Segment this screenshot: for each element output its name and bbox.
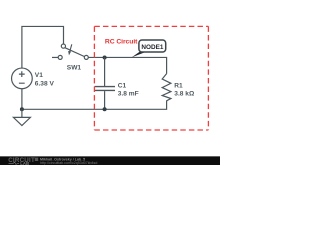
wire top from V1 to SW1 xyxy=(22,26,64,68)
svg-text:3.8 mF: 3.8 mF xyxy=(118,91,139,98)
RC Circuit region box xyxy=(94,26,208,130)
junction C1 bottom xyxy=(103,107,107,111)
svg-text:V1: V1 xyxy=(35,72,43,79)
svg-text:RC Circuit: RC Circuit xyxy=(105,39,138,46)
junction node at C1 top xyxy=(103,55,107,59)
wire bottom from ground tee to R1 xyxy=(22,101,167,110)
svg-text:http://circuitlab.com/c2q53d07: http://circuitlab.com/c2q53d07kb4sd xyxy=(40,161,97,165)
ground xyxy=(13,109,30,125)
svg-text:NODE1: NODE1 xyxy=(141,44,163,51)
switch SW1 xyxy=(58,44,88,59)
svg-text:3.8 kΩ: 3.8 kΩ xyxy=(174,91,195,98)
voltage source V1 xyxy=(12,68,33,89)
junction ground tee xyxy=(20,107,24,111)
svg-text:C1: C1 xyxy=(118,83,127,90)
label R1 3.8 kΩ xyxy=(174,83,195,98)
node NODE1 callout xyxy=(132,40,166,57)
resistor R1 xyxy=(162,74,171,101)
capacitor C1 xyxy=(95,57,116,109)
wire V1 bottom to ground tee xyxy=(21,88,23,109)
watermark footer bar xyxy=(0,156,220,166)
label V1 6.38 V xyxy=(35,72,55,88)
wire SW1 left pin stub xyxy=(52,56,58,58)
label C1 3.8 mF xyxy=(118,83,139,98)
svg-text:SW1: SW1 xyxy=(67,65,82,72)
svg-text:6.38 V: 6.38 V xyxy=(35,81,55,88)
wire SW1 to node and R1 top xyxy=(88,57,166,73)
svg-text:R1: R1 xyxy=(174,83,183,90)
svg-text:LAB: LAB xyxy=(20,161,29,165)
